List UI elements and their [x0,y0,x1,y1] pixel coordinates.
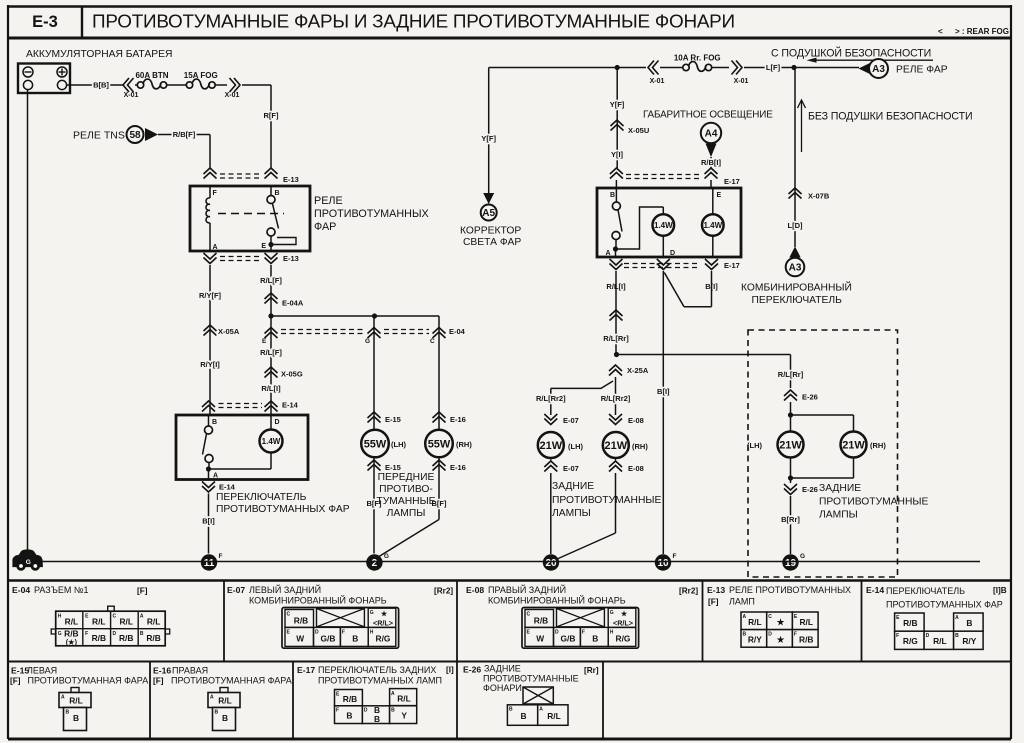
svg-text:A: A [391,691,395,697]
svg-text:A: A [539,707,543,713]
svg-text:2: 2 [372,558,378,569]
svg-text:E-16: E-16 [153,666,171,676]
svg-text:A: A [210,695,214,701]
svg-text:R[F]: R[F] [264,111,279,120]
svg-text:B: B [955,633,959,639]
svg-text:B: B [509,707,513,713]
svg-text:ПРАВЫЙ ЗАДНИЙ: ПРАВЫЙ ЗАДНИЙ [488,584,566,595]
svg-text:F: F [342,630,345,636]
svg-text:L[D]: L[D] [788,221,803,230]
svg-text:R/G: R/G [903,636,918,646]
svg-text:X-01: X-01 [225,92,240,99]
svg-text:E-17: E-17 [724,177,740,186]
svg-text:F: F [673,553,677,560]
svg-text:B: B [140,631,144,637]
svg-text:[F]: [F] [10,677,21,686]
svg-text:20: 20 [545,558,557,569]
svg-text:[Rr]: [Rr] [584,666,599,675]
svg-text:D: D [275,419,280,426]
svg-text:E-14: E-14 [282,401,299,410]
svg-text:B: B [275,190,280,197]
svg-text:КОМБИНИРОВАННЫЙ ФОНАРЬ: КОМБИНИРОВАННЫЙ ФОНАРЬ [488,595,626,606]
svg-text:B[I]: B[I] [202,517,215,526]
svg-text:ПРОТИВО-: ПРОТИВО- [379,484,433,495]
svg-text:ПЕРЕКЛЮЧАТЕЛЬ: ПЕРЕКЛЮЧАТЕЛЬ [752,295,843,306]
svg-text:R/G: R/G [376,634,391,644]
svg-text:КОМБИНИРОВАННЫЙ: КОМБИНИРОВАННЫЙ [741,281,852,294]
svg-text:G: G [26,559,31,566]
svg-text:КОРРЕКТОР: КОРРЕКТОР [460,226,521,237]
svg-text:R/Y: R/Y [962,636,976,646]
svg-text:R/L[I]: R/L[I] [261,384,281,393]
svg-text:E-15: E-15 [385,463,401,472]
svg-text:E-04: E-04 [449,327,466,336]
svg-text:C: C [430,338,435,345]
svg-text:W: W [296,634,304,644]
svg-text:[I]: [I] [446,666,454,675]
svg-text:[I]B: [I]B [993,586,1007,595]
svg-text:X-01: X-01 [734,78,749,85]
svg-text:D: D [768,632,772,638]
svg-text:ЛЕВЫЙ ЗАДНИЙ: ЛЕВЫЙ ЗАДНИЙ [249,584,321,595]
svg-text:ПРОТИВОТУМАННАЯ ФАРА: ПРОТИВОТУМАННАЯ ФАРА [171,676,292,686]
svg-text:★: ★ [776,635,785,645]
svg-text:БЕЗ ПОДУШКИ БЕЗОПАСНОСТИ: БЕЗ ПОДУШКИ БЕЗОПАСНОСТИ [808,111,973,123]
svg-text:ПРОТИВОТУМАННЫЕ: ПРОТИВОТУМАННЫЕ [483,674,579,684]
svg-text:X-05U: X-05U [628,126,649,135]
svg-text:РЕЛЕ TNS: РЕЛЕ TNS [73,130,125,142]
svg-text:D: D [555,630,559,636]
svg-text:A: A [140,614,144,620]
svg-text:ЛАМПЫ: ЛАМПЫ [387,508,426,519]
svg-text:R/L: R/L [69,696,83,706]
svg-text:F: F [213,190,218,197]
svg-text:ФАР: ФАР [314,221,336,233]
svg-text:R/G: R/G [616,634,631,644]
svg-text:R/L[F]: R/L[F] [260,276,282,285]
svg-text:F: F [219,553,223,560]
svg-text:E-08: E-08 [628,464,644,473]
svg-text:ПРОТИВОТУМАННЫЕ: ПРОТИВОТУМАННЫЕ [552,495,662,506]
svg-text:C: C [768,614,772,620]
svg-text:E-08: E-08 [628,416,644,425]
svg-text:E-08: E-08 [466,585,484,595]
svg-text:E-07: E-07 [227,585,245,595]
svg-text:КОМБИНИРОВАННЫЙ ФОНАРЬ: КОМБИНИРОВАННЫЙ ФОНАРЬ [249,595,387,606]
svg-text:F: F [582,630,585,636]
svg-text:★: ★ [381,610,388,618]
svg-text:R/L[Rr]: R/L[Rr] [603,334,629,343]
svg-text:ПРОТИВОТУМАННАЯ ФАРА: ПРОТИВОТУМАННАЯ ФАРА [28,676,149,686]
svg-text:G/B: G/B [321,634,336,644]
svg-text:(LH): (LH) [568,442,583,451]
svg-text:ЗАДНИЕ: ЗАДНИЕ [819,483,861,494]
svg-text:★: ★ [776,617,785,627]
svg-text:B: B [966,618,972,628]
svg-text:10A Rr. FOG: 10A Rr. FOG [674,53,721,62]
svg-text:R/B[I]: R/B[I] [701,158,721,167]
svg-text:E-07: E-07 [563,416,579,425]
svg-text:E-26: E-26 [802,393,818,402]
svg-text:РЕЛЕ ФАР: РЕЛЕ ФАР [896,65,948,76]
svg-text:ПРОТИВОТУМАННЫХ ФАР: ПРОТИВОТУМАННЫХ ФАР [886,600,1003,610]
svg-text:С ПОДУШКОЙ БЕЗОПАСНОСТИ: С ПОДУШКОЙ БЕЗОПАСНОСТИ [771,47,931,60]
svg-text:B: B [346,711,352,721]
svg-text:ЛЕВАЯ: ЛЕВАЯ [27,666,57,676]
svg-text:X-05G: X-05G [281,370,303,379]
svg-text:ПЕРЕКЛЮЧАТЕЛЬ: ПЕРЕКЛЮЧАТЕЛЬ [216,492,307,503]
svg-text:R/Y[F]: R/Y[F] [199,291,222,300]
svg-text:E-04: E-04 [12,585,30,595]
svg-text:G: G [370,610,374,616]
svg-text:E-3: E-3 [32,13,58,31]
svg-text:55W: 55W [364,438,387,450]
svg-text:R/L: R/L [547,711,561,721]
svg-text:C: C [527,612,531,618]
svg-text:G: G [800,553,805,560]
svg-text:B: B [610,192,615,199]
svg-text:D: D [315,630,319,636]
svg-text:R/B: R/B [903,618,917,628]
svg-text:ПЕРЕКЛЮЧАТЕЛЬ: ПЕРЕКЛЮЧАТЕЛЬ [886,586,965,596]
svg-text:ПЕРЕКЛЮЧАТЕЛЬ ЗАДНИХ: ПЕРЕКЛЮЧАТЕЛЬ ЗАДНИХ [318,665,436,675]
svg-text:1.4W: 1.4W [703,221,722,230]
svg-text:РЕЛЕ: РЕЛЕ [314,195,343,207]
svg-text:B: B [592,634,598,644]
svg-text:H: H [610,630,614,636]
svg-text:15A FOG: 15A FOG [184,71,218,80]
svg-text:F: F [896,633,899,639]
svg-text:H: H [58,614,62,620]
svg-text:РЕЛЕ ПРОТИВОТУМАННЫХ: РЕЛЕ ПРОТИВОТУМАННЫХ [729,585,851,595]
svg-text:H: H [370,630,374,636]
svg-text:E: E [261,243,266,250]
svg-text:X-25A: X-25A [627,366,649,375]
svg-text:B: B [391,708,395,714]
svg-text:ЗАДНИЕ: ЗАДНИЕ [552,481,594,492]
svg-text:(RH): (RH) [870,441,886,450]
svg-text:E-17: E-17 [724,261,740,270]
svg-text:R/B: R/B [92,633,106,643]
svg-text:R/B[F]: R/B[F] [173,130,196,139]
svg-text:Y[F]: Y[F] [481,134,496,143]
svg-text:<R/L>: <R/L> [373,619,393,628]
svg-text:[Rr2]: [Rr2] [679,587,698,596]
svg-text:R/L[F]: R/L[F] [260,348,282,357]
svg-text:Y: Y [401,711,407,721]
svg-text:(LH): (LH) [391,440,406,449]
svg-text:E: E [262,338,267,345]
svg-text:F: F [794,632,797,638]
svg-text:1.4W: 1.4W [262,437,281,446]
svg-text:<R/L>: <R/L> [613,619,633,628]
svg-text:E-16: E-16 [450,415,466,424]
svg-text:B: B [222,713,228,723]
svg-text:ПРОТИВОТУМАННЫЕ ФАРЫ И ЗАДНИЕ: ПРОТИВОТУМАННЫЕ ФАРЫ И ЗАДНИЕ ПРОТИВОТУМ… [92,12,735,33]
svg-text:R/L: R/L [397,694,411,704]
svg-text:E-04A: E-04A [282,299,304,308]
svg-text:A: A [743,614,747,620]
svg-text:ПРОТИВОТУМАННЫХ ЛАМП: ПРОТИВОТУМАННЫХ ЛАМП [318,676,442,686]
svg-text:АККУМУЛЯТОРНАЯ БАТАРЕЯ: АККУМУЛЯТОРНАЯ БАТАРЕЯ [26,49,172,60]
svg-text:D: D [364,708,368,714]
svg-text:E-13: E-13 [707,585,725,595]
svg-text:58: 58 [129,130,141,141]
svg-text:ЗАДНИЕ: ЗАДНИЕ [484,664,521,674]
svg-text:R/B: R/B [799,635,813,645]
svg-text:C: C [287,612,291,618]
svg-text:B: B [73,713,79,723]
svg-text:B: B [374,714,380,724]
svg-text:(★): (★) [66,638,78,647]
svg-text:X-01: X-01 [124,92,139,99]
svg-text:B[Rr]: B[Rr] [781,515,800,524]
svg-text:21W: 21W [779,439,802,451]
svg-text:G: G [58,631,62,637]
svg-text:ФОНАРИ: ФОНАРИ [483,683,522,693]
svg-text:[Rr2]: [Rr2] [434,587,453,596]
svg-text:R/L: R/L [119,617,133,627]
svg-text:X-07B: X-07B [808,192,830,201]
svg-text:R/Y[I]: R/Y[I] [200,360,220,369]
svg-text:E-13: E-13 [283,175,299,184]
svg-text:E-14: E-14 [219,483,236,492]
svg-text:А5: А5 [482,208,495,219]
svg-text:D: D [670,250,675,257]
svg-text:B: B [352,634,358,644]
svg-text:ЛАМП: ЛАМП [729,597,755,607]
svg-text:R/B: R/B [294,616,308,626]
svg-text:A: A [955,615,959,621]
svg-text:СВЕТА ФАР: СВЕТА ФАР [463,237,521,248]
svg-text:E: E [717,192,722,199]
svg-text:★: ★ [621,610,628,618]
svg-text:W: W [536,634,544,644]
svg-text:19: 19 [785,558,797,569]
svg-text:R/B: R/B [343,694,357,704]
svg-text:L[F]: L[F] [766,63,781,72]
svg-text:B: B [743,632,747,638]
svg-text:A: A [605,250,610,257]
svg-text:B: B [215,710,219,716]
svg-text:E-26: E-26 [463,665,481,675]
svg-text:ПРОТИВОТУМАННЫЕ: ПРОТИВОТУМАННЫЕ [819,497,929,508]
svg-text:60A BTN: 60A BTN [135,71,168,80]
svg-text:F: F [336,708,339,714]
svg-text:(LH): (LH) [747,441,762,450]
svg-text:[F]: [F] [153,677,164,686]
svg-text:> : REAR FOG: > : REAR FOG [955,27,1009,36]
svg-text:R/L: R/L [748,617,762,627]
svg-text:A: A [61,695,65,701]
svg-text:E-14: E-14 [866,585,884,595]
svg-text:R/B: R/B [534,616,548,626]
svg-text:A: A [213,244,218,251]
svg-text:(RH): (RH) [632,442,648,451]
svg-text:R/L[Rr]: R/L[Rr] [778,370,804,379]
svg-text:R/B: R/B [119,633,133,643]
svg-text:R/L: R/L [933,636,947,646]
svg-text:A: A [213,473,218,480]
svg-text:ПРОТИВОТУМАННЫХ: ПРОТИВОТУМАННЫХ [314,208,429,220]
svg-text:21W: 21W [604,440,627,452]
svg-text:21W: 21W [842,439,865,451]
svg-text:B: B [66,710,70,716]
svg-text:E-13: E-13 [283,254,299,263]
svg-text:А3: А3 [872,64,885,75]
svg-text:R/L: R/L [800,617,814,627]
svg-text:C: C [113,614,117,620]
svg-text:B: B [212,419,217,426]
svg-text:E-16: E-16 [450,463,466,472]
svg-text:[F]: [F] [708,598,719,607]
svg-text:B: B [520,711,526,721]
svg-text:R/L: R/L [65,617,79,627]
svg-text:ПЕРЕДНИЕ: ПЕРЕДНИЕ [378,472,435,483]
svg-text:10: 10 [657,558,669,569]
svg-text:55W: 55W [428,438,451,450]
svg-text:R/L[Rr2]: R/L[Rr2] [601,394,631,403]
svg-text:Y[F]: Y[F] [610,100,625,109]
svg-text:R/B: R/B [146,633,160,643]
svg-text:G: G [384,553,389,560]
svg-text:R/L: R/L [147,617,161,627]
svg-text:X-05A: X-05A [218,327,240,336]
svg-text:R/L: R/L [92,617,106,627]
svg-text:G: G [610,610,614,616]
svg-text:E-26: E-26 [802,485,818,494]
svg-text:А3: А3 [789,263,802,274]
svg-text:[F]: [F] [137,587,148,596]
svg-text:1.4W: 1.4W [654,221,673,230]
svg-text:E-07: E-07 [563,464,579,473]
svg-text:R/L[Rr2]: R/L[Rr2] [536,394,566,403]
svg-text:B[B]: B[B] [93,81,109,90]
svg-text:11: 11 [204,558,215,569]
svg-text:ЛАМПЫ: ЛАМПЫ [552,508,591,519]
svg-text:G: G [365,338,370,345]
svg-text:E-17: E-17 [297,665,315,675]
svg-text:ПРАВАЯ: ПРАВАЯ [172,666,208,676]
svg-text:21W: 21W [539,440,562,452]
svg-text:ЛАМПЫ: ЛАМПЫ [819,510,858,521]
svg-text:R/Y: R/Y [748,635,762,645]
svg-text:РАЗЪЕМ №1: РАЗЪЕМ №1 [34,585,89,595]
svg-text:X-01: X-01 [650,78,665,85]
svg-text:F: F [85,631,88,637]
svg-text:G/B: G/B [561,634,576,644]
svg-text:(RH): (RH) [456,440,472,449]
svg-text:R/L: R/L [218,696,232,706]
svg-text:D: D [113,631,117,637]
svg-text:<: < [938,27,943,36]
svg-text:ПРОТИВОТУМАННЫХ ФАР: ПРОТИВОТУМАННЫХ ФАР [216,504,350,515]
svg-text:D: D [926,633,930,639]
svg-text:ГАБАРИТНОЕ ОСВЕЩЕНИЕ: ГАБАРИТНОЕ ОСВЕЩЕНИЕ [643,110,773,121]
svg-text:B[I]: B[I] [657,387,670,396]
svg-text:E-15: E-15 [385,415,401,424]
svg-text:А4: А4 [705,129,718,140]
svg-text:Y[I]: Y[I] [611,150,624,159]
svg-text:ТУМАННЫЕ: ТУМАННЫЕ [376,496,435,507]
